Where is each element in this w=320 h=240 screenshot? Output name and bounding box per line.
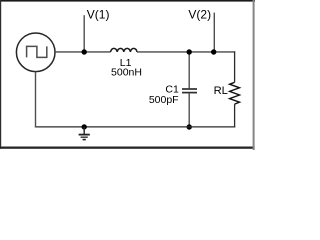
- border frame right: [253, 0, 255, 150]
- wire: source to inductor (top net): [55, 51, 111, 53]
- wire: inductor to right corner: [137, 51, 235, 53]
- svg-text:V(1): V(1): [87, 7, 110, 21]
- capacitor C1 plates: [182, 88, 197, 90]
- border frame top: [0, 0, 255, 2]
- svg-text:500pF: 500pF: [149, 94, 179, 106]
- node V(2) junction dot: [211, 49, 216, 54]
- ground junction dot: [82, 124, 87, 129]
- wire: resistor to bottom net: [234, 104, 236, 127]
- wire: capacitor top branch: [188, 52, 190, 88]
- svg-text:V(2): V(2): [188, 7, 211, 21]
- ground: [79, 127, 90, 140]
- pulse source V1 circle: [16, 33, 55, 72]
- svg-text:RL: RL: [214, 85, 228, 97]
- wire: source bottom stub: [35, 72, 37, 128]
- inductor L1: [111, 48, 137, 52]
- svg-text:500nH: 500nH: [111, 66, 142, 78]
- border frame left: [0, 0, 1, 149]
- pulse source square-wave glyph: [27, 46, 47, 57]
- resistor RL zigzag: [230, 82, 240, 104]
- wire: V(2) probe: [213, 13, 215, 52]
- border frame bottom: [0, 147, 255, 149]
- wire: V(1) probe: [83, 15, 85, 52]
- wire: bottom net: [35, 126, 235, 128]
- wire: right vertical to resistor: [234, 51, 236, 82]
- node capacitor-top junction dot: [187, 49, 192, 54]
- node capacitor-bottom junction dot: [187, 124, 192, 129]
- wire: capacitor bottom branch: [188, 93, 190, 127]
- node V(1) junction dot: [82, 49, 87, 54]
